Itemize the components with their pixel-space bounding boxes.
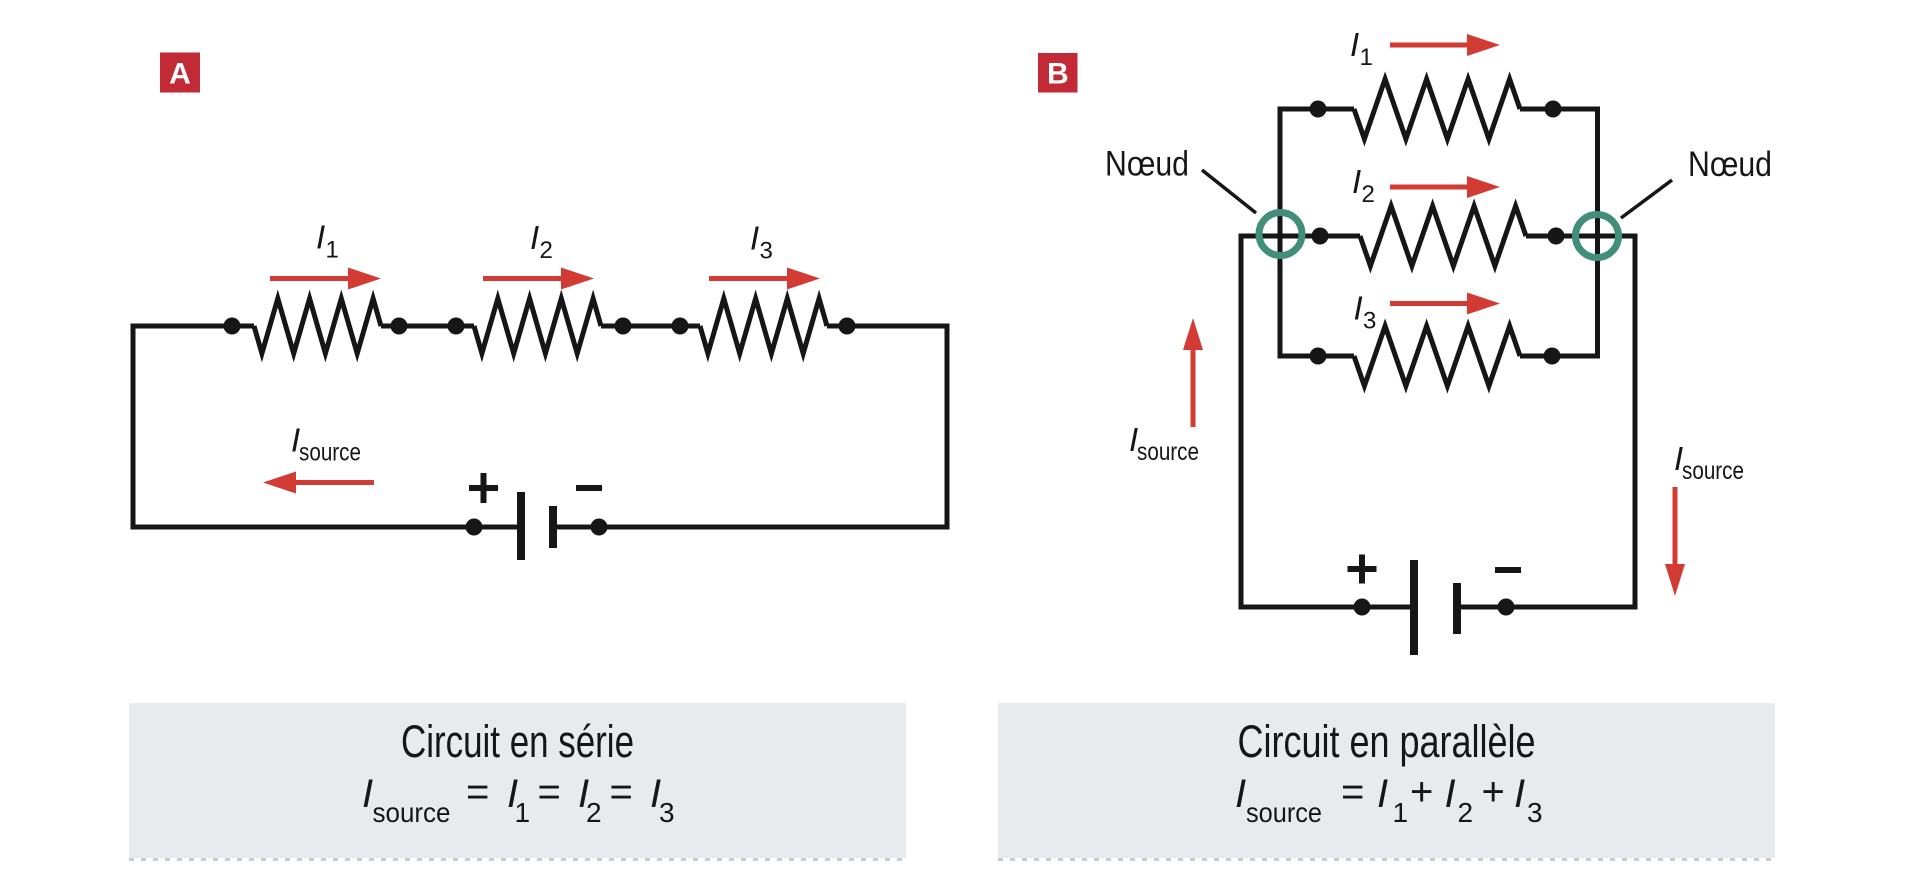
svg-text:B: B (1047, 58, 1069, 91)
svg-text:Nœud: Nœud (1105, 145, 1189, 184)
svg-text:source: source (1682, 457, 1744, 485)
svg-text:3: 3 (760, 238, 773, 265)
svg-text:I: I (1352, 163, 1361, 200)
svg-text:2: 2 (1458, 797, 1474, 828)
svg-text:Circuit en série: Circuit en série (401, 716, 634, 767)
svg-text:2: 2 (1362, 181, 1375, 208)
svg-text:Circuit en parallèle: Circuit en parallèle (1238, 716, 1536, 767)
svg-text:=: = (610, 770, 633, 814)
svg-text:I: I (1445, 772, 1456, 816)
svg-text:I: I (1514, 772, 1525, 816)
svg-text:I: I (362, 772, 373, 816)
svg-text:Nœud: Nœud (1688, 145, 1772, 184)
svg-text:2: 2 (540, 237, 553, 264)
svg-text:2: 2 (586, 797, 602, 828)
svg-text:I: I (530, 219, 539, 256)
svg-text:=: = (1341, 770, 1364, 814)
svg-text:source: source (373, 797, 451, 828)
svg-text:I: I (316, 219, 325, 256)
svg-text:I: I (750, 220, 759, 257)
svg-text:1: 1 (515, 797, 531, 828)
svg-text:source: source (1137, 438, 1199, 466)
svg-text:=: = (466, 770, 489, 814)
svg-text:I: I (1377, 772, 1388, 816)
svg-text:3: 3 (1527, 797, 1543, 828)
svg-text:=: = (538, 770, 561, 814)
svg-text:source: source (299, 439, 361, 467)
svg-text:I: I (1350, 26, 1359, 63)
svg-text:I: I (1354, 290, 1363, 327)
svg-text:A: A (169, 58, 191, 91)
svg-text:+: + (1410, 770, 1433, 814)
svg-text:I: I (1235, 772, 1246, 816)
svg-text:source: source (1246, 797, 1322, 828)
svg-text:1: 1 (326, 237, 339, 264)
svg-text:1: 1 (1393, 797, 1409, 828)
svg-text:3: 3 (1363, 308, 1376, 335)
svg-text:1: 1 (1360, 44, 1373, 71)
svg-text:+: + (1482, 770, 1505, 814)
svg-text:3: 3 (659, 797, 675, 828)
